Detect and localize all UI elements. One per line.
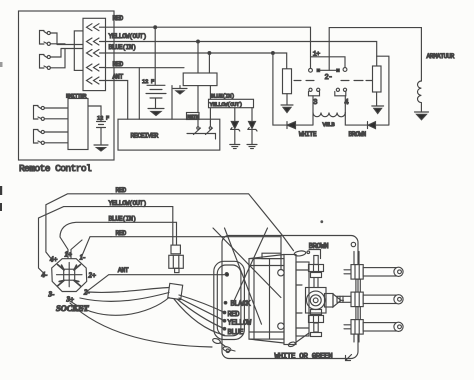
svg-text:4+: 4+ <box>49 256 58 264</box>
relay dashed mechanical link <box>294 80 372 82</box>
ANT end node <box>225 273 228 276</box>
cover plate pill <box>214 261 245 339</box>
stray dot <box>320 220 323 223</box>
socket chevron pins <box>58 265 81 287</box>
svg-text:4-: 4- <box>41 271 49 279</box>
node on BLUE 2 <box>272 52 275 55</box>
relay K1 armature bar <box>318 69 338 71</box>
svg-text:2+: 2+ <box>88 272 97 280</box>
svg-text:BLUE: BLUE <box>228 329 244 337</box>
svg-text:Remote Control: Remote Control <box>19 163 92 174</box>
ground G7 armature <box>415 111 429 113</box>
svg-text:RED: RED <box>116 187 127 194</box>
wire ANT row <box>106 81 128 120</box>
terminal strip box <box>183 73 217 86</box>
wire RED left to socket pin 4+ <box>46 194 112 261</box>
edge smudge marks <box>0 62 3 211</box>
armature coil <box>418 53 455 112</box>
svg-text:3-: 3- <box>48 291 56 299</box>
svg-text:1-: 1- <box>80 254 87 262</box>
svg-text:RECEIVER: RECEIVER <box>131 132 159 139</box>
svg-text:12 F: 12 F <box>97 115 109 122</box>
svg-text:RED: RED <box>228 311 240 319</box>
svg-text:1+: 1+ <box>65 251 73 259</box>
fan wire f3 <box>177 299 225 329</box>
node on BLUE <box>208 52 211 55</box>
relay lower contacts <box>309 88 312 91</box>
ground G5 <box>281 94 293 105</box>
plug P1 upper body <box>169 245 184 272</box>
pushbutton S4 <box>34 130 45 145</box>
wire BLUE left to socket pin 1+ <box>60 222 109 258</box>
label BLACK <box>224 300 251 308</box>
svg-text:RED: RED <box>113 15 124 22</box>
ground G4 <box>247 145 257 149</box>
svg-text:EMITTER: EMITTER <box>66 93 87 100</box>
armature plate <box>284 255 296 345</box>
svg-text:YELLOW(OUT): YELLOW(OUT) <box>109 200 147 207</box>
receiver box <box>118 119 220 150</box>
wire strip to contacts <box>172 86 210 122</box>
connector chevron pins <box>87 24 106 84</box>
contact bracket 4 <box>335 92 346 96</box>
node on RED <box>154 26 157 29</box>
wire YELLOW(OUT) row <box>106 42 377 67</box>
terminal rod 2 <box>337 295 403 304</box>
label YELLOW(OUT) boxed <box>209 99 254 108</box>
remote control enclosure <box>19 11 115 160</box>
svg-text:YELLOW(OUT): YELLOW(OUT) <box>210 101 243 108</box>
svg-text:1+: 1+ <box>313 50 320 57</box>
wire RED row <box>106 27 311 57</box>
brown lug drop wire <box>309 250 321 259</box>
wire 2- to armature coil <box>329 28 421 81</box>
plate hole top right <box>351 242 355 246</box>
svg-text:VELB: VELB <box>323 121 336 128</box>
rod stub top link <box>354 252 359 265</box>
socket to lug wire w4 <box>70 303 212 347</box>
wire ANT to plate <box>86 275 226 292</box>
fan wire f2 <box>179 298 225 321</box>
adjuster T2 <box>309 310 324 337</box>
wire RED to brown lug <box>112 194 294 251</box>
plate corner arrow <box>346 355 352 361</box>
adjuster T1 <box>309 256 324 278</box>
socket to plug wire w3 <box>70 298 169 316</box>
svg-text:BLUE(IN): BLUE(IN) <box>109 215 136 222</box>
fan wire f4 <box>174 299 225 335</box>
resistor R1 <box>283 69 292 94</box>
wire RED2 row bottom <box>111 237 281 273</box>
svg-text:ANT: ANT <box>113 74 124 81</box>
capacitor C1 12F emitter <box>88 106 109 145</box>
rod stub bottom <box>354 334 359 342</box>
pushbutton S1 <box>40 31 51 46</box>
ground G3 <box>230 145 240 149</box>
emitter box <box>66 93 88 150</box>
svg-text:BROWN: BROWN <box>349 131 367 138</box>
plug P2 lower <box>168 283 183 299</box>
contact bracket 3 <box>309 92 320 96</box>
clamp link 2-3 <box>356 307 360 320</box>
svg-text:RED: RED <box>116 230 127 237</box>
coil VELB <box>313 96 345 128</box>
socket to plug wire w1 <box>88 288 169 293</box>
svg-text:YELLOW(OUT): YELLOW(OUT) <box>109 33 147 40</box>
diode D1 <box>231 108 240 145</box>
ground under C1 <box>94 144 108 146</box>
svg-text:ARMATUUR: ARMATUUR <box>427 53 455 60</box>
wire YELLOW row bottom <box>109 207 173 245</box>
svg-text:WHITE: WHITE <box>299 131 317 138</box>
RETN box <box>187 113 200 121</box>
wire RED2 drop to receiver <box>138 68 140 120</box>
plate hole bottom left <box>226 349 230 353</box>
svg-text:RED: RED <box>113 61 124 68</box>
svg-text:BLUE(IN): BLUE(IN) <box>211 93 235 100</box>
svg-text:WHITE OR GREEN: WHITE OR GREEN <box>275 353 333 361</box>
crossing wire d3 <box>225 228 262 324</box>
brown lug <box>294 250 310 256</box>
clamp block 1 <box>351 265 363 280</box>
wire RED2 row <box>106 67 185 69</box>
resistor R2 <box>373 66 382 92</box>
crossing wire d2 <box>233 228 268 303</box>
wires S3/S4 to emitter <box>44 108 68 143</box>
wires S1/S2 to connector <box>50 33 83 68</box>
diode D3 white <box>273 53 313 129</box>
wire yellow node drop <box>197 42 199 74</box>
bottom lugs <box>212 338 235 353</box>
diode D2 <box>248 108 257 145</box>
ground under C2 <box>148 108 164 110</box>
crossing wire d1 <box>213 228 281 298</box>
relay K1 feed 1+ <box>311 57 346 69</box>
clamp block 2 <box>351 292 363 307</box>
wire BLUE row bottom <box>109 222 177 245</box>
ground G6 <box>372 92 384 106</box>
capacitor C2 12F <box>142 27 166 108</box>
boss circles <box>306 278 327 314</box>
terminal rod 3 <box>344 322 403 331</box>
svg-text:2-: 2- <box>325 74 333 82</box>
terminal rod 1 <box>344 267 403 276</box>
fan wire f1 <box>179 295 225 313</box>
socket key square <box>64 269 75 280</box>
label RED dot <box>223 311 239 319</box>
ground G2 <box>173 86 187 89</box>
label BLUE dot <box>223 328 243 337</box>
svg-text:YELLOW: YELLOW <box>228 319 253 327</box>
wire RED2 left to socket pin 1- <box>81 237 111 259</box>
plunger cone <box>325 294 344 308</box>
label YELLOW dot <box>223 319 252 327</box>
clamp link 1-2 <box>356 279 360 292</box>
pivot lower <box>278 323 284 329</box>
socket to plug wire w2 <box>80 293 169 302</box>
white/green lug <box>288 333 309 347</box>
wire YELLOW left loop to socket pin 4- <box>39 207 109 275</box>
socket cross pins <box>57 263 83 287</box>
svg-text:ANT: ANT <box>118 267 129 274</box>
relay K1 contact circles top <box>309 68 313 72</box>
svg-text:3: 3 <box>313 99 318 107</box>
relay contacts K2 <box>187 122 216 139</box>
pivot upper <box>278 270 284 276</box>
diode D4 brown <box>345 56 389 128</box>
mounting plate <box>222 236 358 359</box>
node on YELLOW <box>197 40 200 43</box>
wire blue node drop <box>208 53 210 73</box>
svg-text:BLACK: BLACK <box>231 300 252 308</box>
bracket frame <box>296 262 309 336</box>
svg-text:BLUE(IN): BLUE(IN) <box>109 44 136 51</box>
wire BLUE(IN) row <box>106 53 287 69</box>
solenoid body <box>249 253 284 343</box>
socket body octagon <box>52 259 87 292</box>
connector J1 inner box <box>83 18 106 90</box>
pushbutton S2 <box>40 55 51 70</box>
connector J1 outer box <box>74 31 95 71</box>
clamp block 3 <box>351 320 363 335</box>
pushbutton S3 <box>34 106 45 121</box>
svg-text:12 F: 12 F <box>142 78 154 85</box>
